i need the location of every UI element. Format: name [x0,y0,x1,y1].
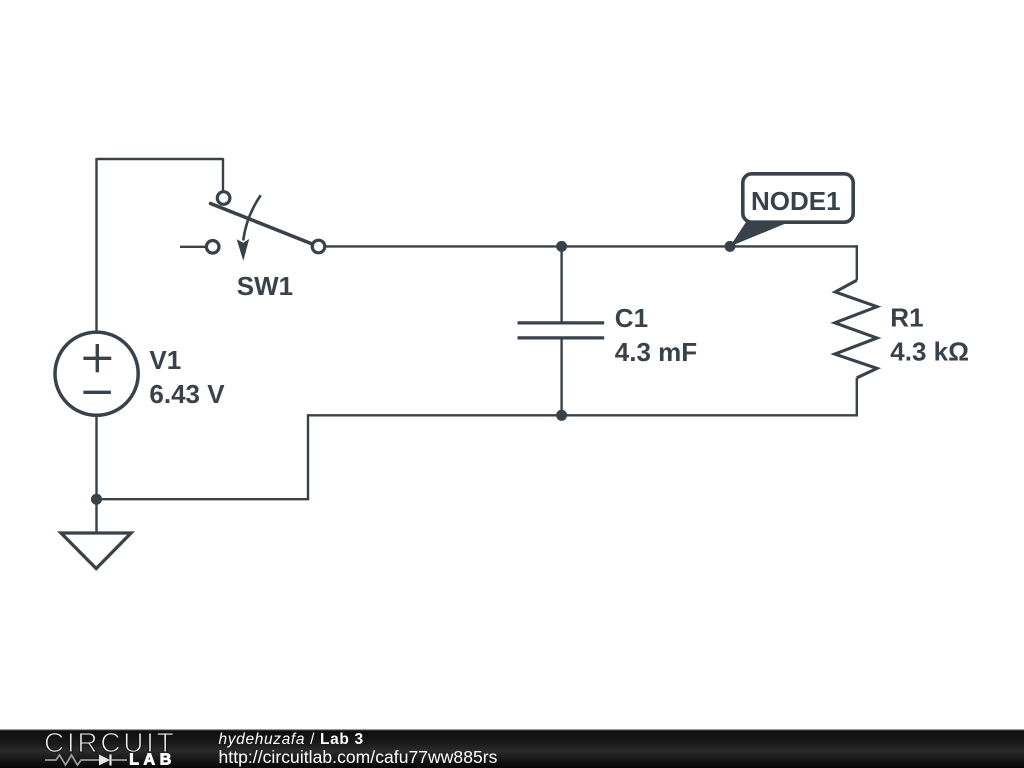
NODE1 callout tail [730,221,788,247]
svg-text:4.3 mF: 4.3 mF [615,337,697,367]
svg-text:C1: C1 [615,303,648,333]
wire top-left horizontal [97,158,224,160]
switch SW1 arrow head [237,239,250,261]
node junction dot at C1 top [556,241,567,252]
footer top separator [0,729,1024,731]
svg-text:6.43 V: 6.43 V [149,379,225,409]
capacitor C1 top plate [518,321,605,324]
switch SW1 actuation arc [243,195,261,240]
svg-text:hydehuzafa / Lab 3: hydehuzafa / Lab 3 [219,731,364,748]
svg-text:NODE1: NODE1 [751,186,841,216]
node NODE1 junction dot [725,241,736,252]
svg-text:http://circuitlab.com/cafu77ww: http://circuitlab.com/cafu77ww885rs [219,747,498,767]
switch SW1 blade [211,204,312,244]
wire main top net [326,245,857,247]
wire left vertical to V1 top [95,158,97,332]
wire bottom step vertical [307,414,309,499]
wire C1 top lead [560,246,562,323]
switch SW1 left contact [206,241,219,254]
wire V1 bottom to ground [95,416,97,534]
resistor R1 zigzag [835,280,877,378]
NODE1 callout box [743,174,853,222]
svg-text:V1: V1 [149,345,181,375]
wire C1 bottom lead [560,338,562,416]
svg-text:LAB: LAB [129,752,176,768]
wire right vertical to R1 top [856,245,858,280]
wire switch top lead [222,158,224,191]
CircuitLab logo resistor-diode doodle [45,755,99,765]
wire switch unconnected stub [180,246,205,248]
footer bar [0,729,1024,768]
switch SW1 top contact [217,192,230,205]
svg-text:4.3 kΩ: 4.3 kΩ [890,336,969,366]
capacitor C1 bottom plate [518,336,605,339]
node ground junction dot [91,494,102,505]
voltage source V1 body [55,332,138,415]
switch SW1 right contact [312,240,325,253]
svg-text:R1: R1 [890,302,923,332]
wire R1 bottom lead [856,378,858,417]
ground symbol [61,533,131,569]
wire bottom net [308,414,858,416]
wire bottom to ground node [97,498,310,500]
V1 minus sign [83,391,111,394]
svg-text:SW1: SW1 [237,271,293,301]
node junction dot at C1 bottom [556,410,567,421]
V1 plus sign [83,344,111,372]
